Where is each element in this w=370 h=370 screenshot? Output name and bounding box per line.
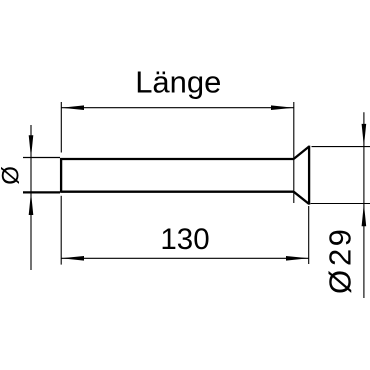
dim 130: dimension line [61, 257, 309, 259]
part: shaft end face edge / Laenge extension line [293, 102, 295, 203]
dim head diameter 29: label "Ø 29" (rotated) [322, 229, 357, 294]
part: countersunk head (flares and face) [294, 146, 310, 205]
svg-text:Ø: Ø [0, 166, 25, 185]
dim shaft diameter: lower extension line [23, 191, 60, 193]
dim Laenge: left arrow [61, 105, 84, 110]
dim shaft diameter: lower arrow (pointing up) [29, 192, 34, 215]
dim Laenge: right arrow [271, 105, 294, 110]
dim Laenge: dimension line [61, 107, 293, 109]
part: rivet shaft outline [61, 158, 294, 193]
svg-text:Länge: Länge [135, 64, 221, 99]
dim head diameter 29: lower extension line [311, 203, 370, 205]
svg-text:130: 130 [160, 223, 209, 256]
svg-text:2: 2 [322, 249, 357, 266]
dim 130: left arrow [61, 256, 84, 261]
dim head diameter 29: dimension line [363, 112, 365, 298]
dim head diameter 29: lower arrow (pointing up) [362, 204, 367, 227]
dim shaft diameter: upper arrow (pointing down) [29, 135, 34, 158]
dim head diameter 29: upper arrow (pointing down) [362, 124, 367, 147]
dim 130: right extension line [308, 206, 310, 264]
dim 130: left extension line [60, 196, 62, 265]
dim 130: right arrow [286, 256, 309, 261]
svg-text:9: 9 [322, 229, 357, 246]
dim shaft diameter: upper extension line [23, 157, 60, 159]
dim Laenge: left extension line [60, 102, 62, 153]
dim shaft diameter: dimension line [30, 125, 32, 270]
dim head diameter 29: upper extension line [312, 146, 370, 148]
svg-text:Ø: Ø [322, 270, 357, 294]
